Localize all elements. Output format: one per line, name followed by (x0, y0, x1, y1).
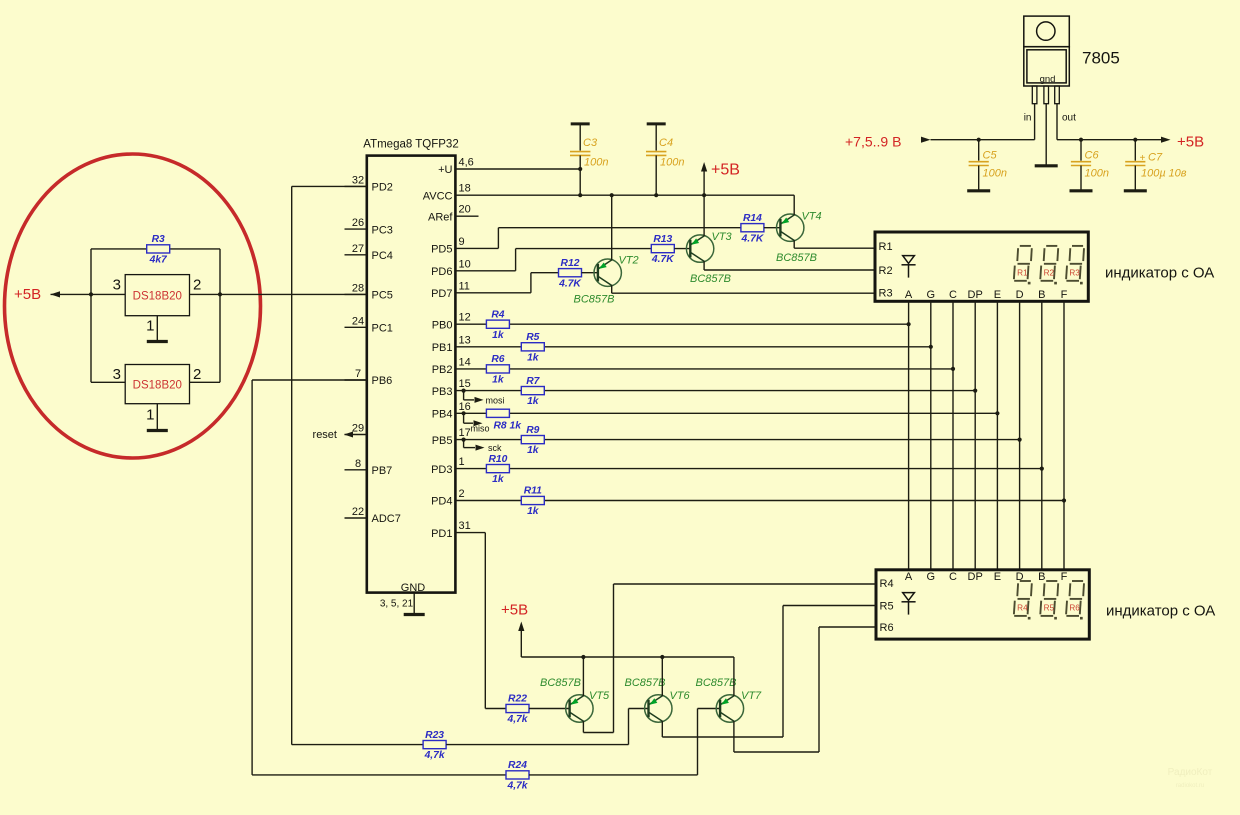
svg-text:R5: R5 (880, 601, 894, 613)
svg-text:R10: R10 (488, 454, 507, 465)
svg-text:PD5: PD5 (431, 244, 452, 256)
svg-text:BC857B: BC857B (690, 273, 731, 285)
svg-text:R12: R12 (561, 258, 580, 269)
svg-text:D: D (1016, 571, 1024, 583)
svg-text:ATmega8 TQFP32: ATmega8 TQFP32 (363, 138, 458, 150)
wire R23 to VT6 base (446, 744, 628, 746)
ground DS18B20 bottom (147, 429, 168, 432)
resistor R24 4,7k (506, 771, 529, 779)
wire VT2 emitter to rail (611, 195, 613, 260)
wire PD6 to R13 (455, 270, 515, 272)
svg-text:PB4: PB4 (432, 409, 453, 421)
svg-text:DS18B20: DS18B20 (133, 290, 182, 302)
svg-text:15: 15 (459, 378, 471, 390)
wire R7 net (455, 390, 975, 392)
svg-text:R4: R4 (491, 309, 504, 320)
svg-text:4.7K: 4.7K (558, 278, 582, 289)
svg-text:R1: R1 (879, 241, 893, 253)
node +5B rail junction (702, 193, 706, 197)
svg-text:20: 20 (459, 204, 471, 216)
svg-text:C4: C4 (659, 137, 673, 149)
wire segment bus B (1041, 301, 1043, 570)
svg-text:C: C (949, 289, 957, 301)
wire R14 to VT4 base (764, 227, 781, 229)
svg-text:C7: C7 (1148, 152, 1163, 164)
resistor R4 1k (486, 320, 509, 328)
svg-text:VT4: VT4 (802, 211, 822, 223)
wire PD2 to R23 (292, 185, 367, 187)
resistor R7 1k (521, 387, 544, 395)
svg-text:E: E (994, 289, 1001, 301)
svg-text:13: 13 (459, 334, 471, 346)
svg-text:gnd: gnd (1040, 74, 1056, 85)
svg-text:R14: R14 (743, 213, 762, 224)
svg-text:VT3: VT3 (712, 231, 733, 243)
resistor R5 1k (521, 343, 544, 351)
resistor R6 1k (486, 365, 509, 373)
digit 3 HG2 with label R6 (1066, 581, 1084, 620)
wire input to 7805 in (931, 139, 1035, 141)
svg-text:F: F (1061, 289, 1068, 301)
svg-text:R6: R6 (1069, 604, 1080, 613)
svg-text:C: C (949, 571, 957, 583)
resistor R23 4,7k (423, 741, 446, 749)
wire VT7 emitter to rail (733, 657, 735, 696)
resistor R22 4,7k (506, 704, 529, 712)
svg-text:PB5: PB5 (432, 435, 453, 447)
transistor VT4 BC857B (777, 214, 804, 241)
svg-text:R11: R11 (524, 486, 542, 497)
isp branch sck (462, 438, 466, 442)
svg-text:16: 16 (459, 401, 471, 413)
svg-text:+7,5..9 В: +7,5..9 В (845, 133, 901, 149)
wire PD7 to R12 (455, 292, 531, 294)
node R10 to segment bus junction (1040, 467, 1044, 471)
svg-text:BC857B: BC857B (625, 677, 666, 689)
wire DS18B20 top pin1 (156, 316, 158, 342)
svg-text:4.7K: 4.7K (651, 254, 675, 265)
digit 1 HG1 with label R1 (1014, 246, 1032, 285)
svg-text:R23: R23 (425, 730, 444, 741)
svg-text:PD6: PD6 (431, 266, 452, 278)
svg-text:radiokot.ru: radiokot.ru (1176, 783, 1204, 789)
wire segment bus DP (974, 301, 976, 570)
svg-text:R5: R5 (1044, 604, 1055, 613)
wire segment bus A (908, 301, 910, 570)
svg-text:B: B (1038, 571, 1045, 583)
node R7 to segment bus junction (973, 389, 977, 393)
svg-text:4.7K: 4.7K (741, 233, 765, 244)
wire R12 to VT2 base (582, 272, 599, 274)
node VT5 emitter junction (581, 655, 585, 659)
svg-text:BC857B: BC857B (574, 294, 615, 306)
node VT6 emitter junction (660, 655, 664, 659)
resistor R14 4.7K (741, 224, 764, 232)
isp branch miso (462, 411, 466, 415)
svg-text:C6: C6 (1085, 149, 1100, 161)
svg-text:R1: R1 (1017, 269, 1028, 278)
svg-text:1: 1 (146, 318, 154, 335)
wire AVCC rail +5V (455, 194, 794, 196)
node junction right vertical on data line (218, 292, 222, 296)
transistor VT3 BC857B (686, 235, 713, 262)
svg-text:mosi: mosi (486, 395, 505, 405)
svg-text:1: 1 (146, 407, 154, 424)
svg-text:2: 2 (193, 366, 201, 383)
node R5 to segment bus junction (929, 345, 933, 349)
svg-text:22: 22 (352, 506, 364, 518)
transistor VT2 BC857B (594, 259, 621, 286)
wire R3 bracket top (91, 248, 220, 250)
node C3 +U junction (578, 167, 582, 171)
svg-text:ARef: ARef (428, 211, 453, 223)
svg-text:R5: R5 (526, 332, 539, 343)
wire R5 net (455, 346, 930, 348)
node R4 to segment bus junction (907, 322, 911, 326)
svg-text:R4: R4 (880, 578, 894, 590)
pin 32 PD2 stub (345, 185, 367, 187)
svg-text:sck: sck (488, 443, 502, 453)
resistor R8 1k (486, 409, 509, 417)
svg-text:PD3: PD3 (431, 464, 452, 476)
svg-text:индикатор с ОА: индикатор с ОА (1105, 265, 1214, 282)
svg-text:R2: R2 (1044, 269, 1055, 278)
svg-text:1k: 1k (492, 375, 505, 386)
ground 7805 (1035, 164, 1058, 167)
svg-text:1k: 1k (527, 396, 540, 407)
svg-text:PC3: PC3 (372, 224, 393, 236)
svg-text:PB0: PB0 (432, 319, 453, 331)
svg-text:BC857B: BC857B (696, 677, 737, 689)
node R8 to segment bus junction (995, 411, 999, 415)
node R6 to segment bus junction (951, 367, 955, 371)
svg-text:1: 1 (459, 456, 465, 468)
capacitor C6 100n (1079, 138, 1083, 142)
svg-text:R13: R13 (653, 234, 672, 245)
svg-text:27: 27 (352, 243, 364, 255)
svg-text:7: 7 (355, 368, 361, 380)
pin 27 PC4 stub (345, 254, 367, 256)
svg-text:BC857B: BC857B (776, 252, 817, 264)
transistor VT5 BC857B (566, 695, 593, 722)
svg-text:10в: 10в (1169, 168, 1187, 180)
svg-text:R4: R4 (1017, 604, 1028, 613)
svg-text:4,7k: 4,7k (506, 714, 528, 725)
svg-text:29: 29 (352, 423, 364, 435)
wire segment bus G (930, 301, 932, 570)
svg-text:ADC7: ADC7 (372, 513, 401, 525)
wire DS18B20 bottom pin3 (91, 381, 125, 383)
resistor R3 4k7 (147, 245, 170, 253)
wire VT2 collector to indicator R3 (611, 285, 613, 293)
svg-text:PD2: PD2 (372, 182, 393, 194)
ground DS18B20 top (147, 340, 168, 343)
svg-text:1k: 1k (527, 445, 540, 456)
svg-text:+5В: +5В (1177, 134, 1204, 151)
digit 1 HG2 with label R4 (1014, 581, 1032, 620)
svg-text:PC5: PC5 (372, 290, 393, 302)
wire +U to C3 (455, 168, 580, 170)
svg-text:R6: R6 (880, 622, 894, 634)
wire segment bus E (996, 301, 998, 570)
svg-text:+U: +U (438, 164, 452, 176)
pin 20 ARef stub (455, 215, 478, 217)
wire R13 to VT3 base (674, 248, 691, 250)
wire right bracket vertical (219, 249, 221, 382)
svg-text:R3: R3 (152, 234, 165, 245)
svg-text:2: 2 (459, 488, 465, 500)
pin 7 PB6 stub (345, 379, 367, 381)
svg-text:A: A (905, 571, 913, 583)
pin 29 reset stub (345, 434, 367, 436)
svg-text:+5В: +5В (501, 602, 528, 619)
wire segment bus F (1063, 301, 1065, 570)
arrow +5B left (51, 291, 61, 297)
svg-text:D: D (1016, 289, 1024, 301)
svg-text:24: 24 (352, 315, 364, 327)
node R9 to segment bus junction (1018, 438, 1022, 442)
isp branch mosi (462, 389, 466, 393)
indicator HG2 box (876, 570, 1089, 639)
svg-text:VT6: VT6 (670, 690, 691, 702)
wire DS18B20 bottom pin1 (156, 404, 158, 431)
svg-text:1k: 1k (492, 474, 505, 485)
pin 8 PB7 stub (345, 469, 367, 471)
svg-text:3: 3 (113, 366, 121, 383)
svg-text:+5В: +5В (14, 286, 41, 303)
svg-text:+: + (1140, 153, 1146, 164)
wire DS18B20 pin2 to PC5 (190, 293, 367, 295)
wire VT6 emitter to rail (661, 657, 663, 696)
pin legs 7805 (1032, 86, 1037, 104)
svg-text:BC857B: BC857B (540, 677, 581, 689)
resistor R10 1k (486, 465, 509, 473)
svg-text:PB7: PB7 (372, 465, 393, 477)
digit 2 HG1 with label R2 (1040, 246, 1058, 285)
svg-text:11: 11 (459, 280, 470, 292)
pin 28 PC5 stub (345, 293, 367, 295)
svg-text:индикатор с ОА: индикатор с ОА (1106, 603, 1215, 620)
svg-text:reset: reset (313, 429, 337, 441)
svg-text:E: E (994, 571, 1001, 583)
pin 22 ADC7 stub (345, 517, 367, 519)
pin 26 PC3 stub (345, 228, 367, 230)
resistor R12 4.7K (559, 269, 582, 277)
svg-text:R24: R24 (508, 760, 527, 771)
node R11 to segment bus junction (1062, 498, 1066, 502)
svg-text:F: F (1061, 571, 1068, 583)
sensor U2 DS18B20 box (125, 275, 189, 316)
capacitor C7 100u electrolytic (1133, 138, 1137, 142)
svg-text:17: 17 (459, 427, 471, 439)
wire R22 to VT5 base (529, 708, 570, 710)
svg-text:B: B (1038, 289, 1045, 301)
wire VT3 emitter to rail (703, 195, 705, 236)
wire VT4 collector to indicator R1 (793, 240, 795, 248)
sensor U3 DS18B20 box (125, 365, 189, 404)
svg-text:7805: 7805 (1082, 49, 1120, 68)
red ellipse around sensors (5, 154, 261, 458)
mcu U1 ATmega8 TQFP32 body (367, 156, 456, 593)
svg-text:R3: R3 (879, 288, 893, 300)
wire segment bus C (952, 301, 954, 570)
wire left bracket vertical (90, 249, 92, 382)
resistor R13 4.7K (651, 245, 674, 253)
node C4 AVCC junction (654, 193, 658, 197)
resistor R11 1k (521, 496, 544, 504)
svg-text:1k: 1k (492, 330, 505, 341)
svg-text:28: 28 (352, 282, 364, 294)
svg-text:8: 8 (355, 458, 361, 470)
capacitor C3 100n (571, 122, 590, 125)
svg-text:100n: 100n (1085, 167, 1109, 179)
svg-text:100n: 100n (584, 156, 608, 168)
svg-text:РадиоКот: РадиоКот (1168, 767, 1213, 778)
svg-text:G: G (927, 571, 936, 583)
svg-text:PD4: PD4 (431, 496, 452, 508)
svg-text:31: 31 (459, 520, 471, 532)
svg-text:in: in (1024, 113, 1032, 124)
wire VT3 collector to indicator R2 (703, 261, 705, 270)
svg-text:PD1: PD1 (431, 528, 452, 540)
svg-text:GND: GND (401, 582, 426, 594)
capacitor C5 100n (977, 138, 981, 142)
svg-text:1k: 1k (527, 352, 540, 363)
wire R9 net (455, 439, 1019, 441)
svg-text:DS18B20: DS18B20 (133, 380, 182, 392)
indicator HG1 box (875, 232, 1088, 301)
svg-text:PB6: PB6 (372, 375, 393, 387)
wire VT5 emitter to rail (582, 657, 584, 696)
wire VT4 emitter to rail (793, 195, 795, 215)
svg-text:PC4: PC4 (372, 250, 393, 262)
wire PD5 to R14 (455, 247, 498, 249)
svg-text:C5: C5 (983, 149, 998, 161)
resistor R9 1k (521, 436, 544, 444)
wire PD1 to R22 (455, 532, 485, 534)
digit 3 HG1 with label R3 (1066, 246, 1084, 285)
svg-text:2: 2 (193, 277, 201, 294)
svg-text:10: 10 (459, 258, 471, 270)
arrow input supply (921, 137, 931, 143)
wire VT7 collector to HG2 R6 (733, 721, 735, 752)
wire bottom +5V rail (521, 656, 734, 658)
svg-text:3, 5, 21: 3, 5, 21 (380, 599, 414, 610)
svg-text:3: 3 (113, 277, 121, 294)
svg-text:PB2: PB2 (432, 364, 453, 376)
svg-text:R3: R3 (1069, 269, 1080, 278)
regulator U4 7805 package (1024, 16, 1070, 47)
wire DS18B20 bottom pin2 (190, 381, 221, 383)
node junction left vertical on +5B line (89, 292, 93, 296)
svg-text:18: 18 (459, 183, 471, 195)
svg-text:PD7: PD7 (431, 288, 452, 300)
svg-text:26: 26 (352, 217, 364, 229)
svg-text:VT2: VT2 (619, 255, 639, 267)
wire 7805 out to +5B (1056, 104, 1058, 140)
svg-text:14: 14 (459, 356, 471, 368)
wire R10 net (455, 468, 1041, 470)
wire R6 net (455, 368, 953, 370)
wire 7805 gnd leg (1045, 104, 1047, 165)
wire PB6 to R24 (252, 379, 367, 381)
capacitor C4 100n (647, 122, 666, 125)
svg-text:DP: DP (968, 289, 983, 301)
svg-text:R9: R9 (526, 425, 539, 436)
svg-text:R6: R6 (491, 354, 504, 365)
svg-text:1k: 1k (527, 506, 540, 517)
wire VT5 collector to HG2 R4 (582, 721, 584, 732)
svg-text:C3: C3 (583, 137, 598, 149)
ground mcu (404, 613, 425, 616)
transistor VT6 BC857B (645, 695, 672, 722)
wire VT6 collector to HG2 R5 (661, 721, 663, 737)
wire +5B to DS18B20 pin3 (51, 293, 126, 295)
pin 24 PC1 stub (345, 326, 367, 328)
svg-text:4,7k: 4,7k (424, 750, 446, 761)
arrow output +5B (1161, 137, 1171, 143)
svg-text:R22: R22 (508, 694, 527, 705)
svg-text:PC1: PC1 (372, 323, 393, 335)
diode symbol HG2 (902, 593, 916, 615)
wire R11 net (455, 500, 1064, 502)
node C3 AVCC junction (578, 193, 582, 197)
svg-text:9: 9 (459, 236, 465, 248)
svg-text:100n: 100n (983, 167, 1007, 179)
svg-text:VT5: VT5 (589, 690, 610, 702)
svg-text:miso: miso (471, 424, 490, 434)
svg-text:4,7k: 4,7k (506, 781, 528, 792)
wire segment bus D (1019, 301, 1021, 570)
svg-text:12: 12 (459, 312, 471, 324)
svg-text:100n: 100n (660, 156, 684, 168)
svg-text:4k7: 4k7 (149, 255, 168, 266)
wire R4 net (455, 323, 908, 325)
svg-text:4,6: 4,6 (459, 157, 474, 169)
svg-text:G: G (927, 289, 936, 301)
svg-text:AVCC: AVCC (423, 190, 453, 202)
svg-text:DP: DP (968, 571, 983, 583)
svg-text:+5В: +5В (711, 162, 740, 179)
svg-text:VT7: VT7 (741, 690, 762, 702)
svg-text:PB1: PB1 (432, 342, 453, 354)
wire R24 to VT7 base (529, 774, 698, 776)
svg-text:R7: R7 (526, 376, 540, 387)
wire R8 net (455, 412, 997, 414)
transistor VT7 BC857B (716, 695, 743, 722)
node VT2 emitter junction (610, 193, 614, 197)
diode symbol HG1 (902, 256, 916, 278)
svg-text:PB3: PB3 (432, 386, 453, 398)
svg-text:32: 32 (352, 174, 364, 186)
svg-text:100µ: 100µ (1141, 168, 1166, 180)
power +5B top arrow (703, 166, 705, 196)
svg-text:out: out (1062, 113, 1076, 124)
svg-text:R2: R2 (879, 265, 893, 277)
svg-text:A: A (905, 289, 913, 301)
svg-text:R8 1k: R8 1k (494, 421, 523, 432)
digit 2 HG2 with label R5 (1040, 581, 1058, 620)
